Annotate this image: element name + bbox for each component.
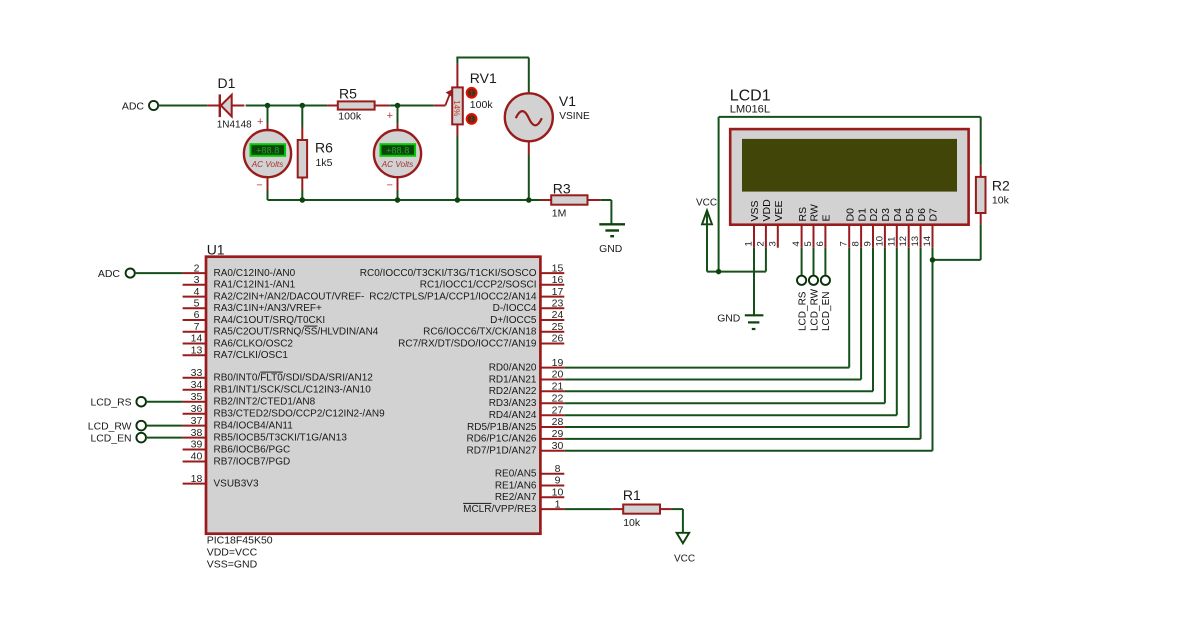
U1 pin 5 stub — [183, 298, 322, 315]
svg-text:8: 8 — [555, 463, 561, 475]
U1 pin 26 stub (right) — [398, 333, 564, 350]
svg-text:LCD_RS: LCD_RS — [91, 398, 132, 409]
svg-text:GND: GND — [599, 244, 622, 255]
svg-text:R2: R2 — [992, 178, 1010, 194]
svg-text:6: 6 — [815, 241, 826, 246]
U1 pin 39 stub — [183, 439, 291, 456]
svg-text:21: 21 — [552, 381, 564, 393]
svg-text:1M: 1M — [552, 208, 567, 220]
svg-text:VSINE: VSINE — [559, 111, 590, 122]
junction node rail RV1 — [455, 197, 461, 203]
svg-text:VEE: VEE — [773, 200, 785, 221]
U1 pin 8 stub (right) — [495, 463, 564, 480]
junction node VCC/frame — [716, 269, 722, 275]
U1 pin 37 stub — [183, 415, 294, 432]
svg-text:AC Volts: AC Volts — [251, 160, 284, 169]
wire V1 bottom to rail — [528, 155, 530, 200]
svg-text:RA6/CLKO/OSC2: RA6/CLKO/OSC2 — [214, 338, 294, 349]
U1 pin 10 stub (right) — [495, 487, 564, 504]
svg-text:10k: 10k — [623, 517, 641, 529]
svg-text:V1: V1 — [559, 93, 576, 109]
svg-text:D4: D4 — [892, 208, 904, 222]
U1 pin 2 stub — [183, 262, 296, 279]
svg-text:RB3/CTED2/SDO/CCP2/C12IN2-/AN9: RB3/CTED2/SDO/CCP2/C12IN2-/AN9 — [214, 409, 386, 420]
svg-text:VCC: VCC — [696, 197, 717, 208]
RV1 decrement button — [467, 114, 477, 124]
svg-text:RB5/IOCB5/T3CKI/T1G/AN13: RB5/IOCB5/T3CKI/T1G/AN13 — [214, 432, 348, 443]
svg-text:34: 34 — [191, 379, 203, 391]
U1 pin 24 stub (right) — [490, 309, 564, 326]
wire R1 to VCC — [672, 509, 683, 533]
wire R5 to RV1 wiper — [390, 105, 434, 107]
svg-text:4: 4 — [194, 286, 200, 298]
svg-text:D2: D2 — [868, 208, 880, 222]
resistor R2 — [976, 165, 1010, 224]
svg-text:RA3/C1IN+/AN3/VREF+: RA3/C1IN+/AN3/VREF+ — [214, 303, 323, 314]
U1 pin 36 stub — [183, 403, 386, 420]
U1 pin 22 stub (right) — [489, 392, 565, 409]
svg-text:LCD_RW: LCD_RW — [809, 288, 820, 331]
svg-text:R1: R1 — [623, 487, 641, 503]
junction node rail R6 — [300, 197, 306, 203]
svg-text:37: 37 — [191, 415, 203, 427]
wire RD0 to LCD D0 — [564, 248, 849, 368]
svg-text:29: 29 — [552, 428, 564, 440]
microcontroller U1 PIC18F45K50 body — [206, 257, 540, 534]
U1 pin 16 stub (right) — [420, 274, 565, 291]
U1 pin 14 stub — [183, 333, 294, 350]
svg-text:LCD1: LCD1 — [730, 88, 771, 105]
svg-text:40: 40 — [191, 451, 203, 463]
LCD1 display module body — [730, 129, 968, 225]
ground rail wire — [268, 199, 541, 200]
svg-text:38: 38 — [191, 427, 203, 439]
svg-text:VSS: VSS — [749, 200, 761, 221]
svg-text:8: 8 — [851, 241, 862, 246]
svg-text:LM016L: LM016L — [730, 103, 770, 115]
svg-text:D+/IOCC5: D+/IOCC5 — [490, 315, 537, 326]
svg-text:RD1/AN21: RD1/AN21 — [489, 374, 537, 385]
U1 pin 9 stub (right) — [495, 475, 564, 492]
svg-text:RA2/C2IN+/AN2/DACOUT/VREF-: RA2/C2IN+/AN2/DACOUT/VREF- — [214, 291, 365, 302]
svg-text:30: 30 — [552, 440, 564, 452]
svg-text:−: − — [386, 179, 392, 191]
svg-text:RB6/IOCB6/PGC: RB6/IOCB6/PGC — [214, 444, 291, 455]
svg-text:RD0/AN20: RD0/AN20 — [489, 362, 537, 373]
LCD1 pin 5 (RW) — [803, 204, 821, 248]
terminal LCD_RW (U1 side) — [88, 421, 146, 433]
svg-text:D1: D1 — [218, 75, 236, 91]
U1 pin 29 stub (right) — [466, 428, 564, 445]
ground symbol (R3) — [599, 224, 625, 255]
junction node VM2 top — [395, 103, 401, 109]
svg-text:19: 19 — [552, 357, 564, 369]
resistor R3 — [541, 180, 601, 219]
svg-text:RC6/IOCC6/TX/CK/AN18: RC6/IOCC6/TX/CK/AN18 — [423, 327, 537, 338]
power VCC symbol (R1) — [674, 533, 695, 565]
RV1 increment button — [467, 88, 477, 98]
svg-text:RE1/AN6: RE1/AN6 — [495, 480, 537, 491]
LCD1 label — [730, 88, 771, 116]
wire ADC to U1 pin2 — [135, 272, 183, 274]
U1 pin 15 stub (right) — [360, 262, 565, 279]
svg-text:D7: D7 — [928, 208, 940, 222]
U1 pin 7 stub — [183, 321, 379, 338]
svg-text:RC2/CTPLS/P1A/CCP1/IOCC2/AN14: RC2/CTPLS/P1A/CCP1/IOCC2/AN14 — [369, 291, 537, 302]
wire VCC to VDD pin — [707, 248, 766, 272]
wire RD6 to LCD D6 — [564, 248, 920, 439]
svg-text:VCC: VCC — [674, 553, 695, 564]
U1 pin 33 stub — [183, 367, 374, 384]
svg-text:10: 10 — [874, 236, 885, 247]
wire RD3 to LCD D3 — [564, 248, 885, 404]
wire ADC to D1 — [158, 105, 207, 107]
svg-text:100k: 100k — [470, 99, 494, 111]
svg-text:RD3/AN23: RD3/AN23 — [489, 398, 537, 409]
ground symbol (LCD) — [717, 314, 763, 330]
svg-text:RB0/INT0/FLT0/SDI/SDA/SRI/AN12: RB0/INT0/FLT0/SDI/SDA/SRI/AN12 — [214, 373, 374, 384]
svg-text:RA5/C2OUT/SRNQ/SS/HLVDIN/AN4: RA5/C2OUT/SRNQ/SS/HLVDIN/AN4 — [214, 327, 379, 338]
junction node D7/R2 — [930, 257, 936, 263]
svg-text:2: 2 — [755, 241, 766, 246]
svg-text:12: 12 — [898, 236, 909, 247]
wire LCD RW to terminal — [813, 248, 815, 276]
svg-text:D5: D5 — [904, 208, 916, 222]
voltmeter VM1 leads — [267, 106, 269, 201]
U1 pin 34 stub — [183, 379, 372, 396]
svg-text:14: 14 — [191, 333, 203, 345]
U1 pin 25 stub (right) — [423, 321, 564, 338]
U1 pin 27 stub (right) — [489, 404, 565, 421]
svg-text:AC Volts: AC Volts — [381, 160, 414, 169]
wire VSS to ground — [753, 248, 755, 316]
svg-text:5: 5 — [803, 241, 814, 246]
svg-text:3: 3 — [767, 241, 778, 246]
resistor R6 — [298, 139, 333, 177]
U1 pin 18 stub — [183, 473, 259, 490]
svg-text:24: 24 — [552, 309, 564, 321]
svg-text:RV1: RV1 — [470, 70, 497, 86]
potentiometer RV1 — [434, 64, 497, 136]
svg-text:D3: D3 — [880, 208, 892, 222]
LCD1 pin 13 (D6) — [910, 208, 928, 248]
terminal LCD_RW (LCD side) — [809, 276, 820, 331]
svg-text:17: 17 — [552, 286, 564, 298]
resistor R5 — [327, 85, 390, 122]
svg-text:RW: RW — [809, 204, 821, 221]
svg-text:RD6/P1C/AN26: RD6/P1C/AN26 — [466, 434, 536, 445]
svg-text:RD7/P1D/AN27: RD7/P1D/AN27 — [466, 446, 536, 457]
U1 pin 13 stub — [183, 344, 289, 361]
terminal ADC (U1 side) — [98, 268, 135, 280]
svg-text:RC0/IOCC0/T3CKI/T3G/T1CKI/SOSC: RC0/IOCC0/T3CKI/T3G/T1CKI/SOSCO — [360, 268, 537, 279]
svg-text:RS: RS — [797, 207, 809, 222]
wire RD5 to LCD D5 — [564, 248, 908, 427]
wire LCD_EN to U1 — [146, 437, 183, 439]
svg-text:16: 16 — [552, 274, 564, 286]
wire VCC frame (left vertical + top + right down to R2) — [719, 117, 981, 272]
junction node rail V1 — [526, 197, 532, 203]
svg-text:35: 35 — [191, 391, 203, 403]
svg-text:22: 22 — [552, 392, 564, 404]
LCD1 pin 12 (D5) — [898, 208, 916, 248]
svg-text:23: 23 — [552, 298, 564, 310]
U1 part labels — [207, 535, 273, 571]
LCD1 pin 9 (D2) — [863, 208, 881, 248]
svg-text:15: 15 — [552, 262, 564, 274]
terminal ADC (top) — [122, 100, 158, 112]
svg-text:VSUB3V3: VSUB3V3 — [214, 478, 259, 489]
voltmeter VM1 (AC Volts) — [244, 116, 291, 191]
U1 pin 20 stub (right) — [489, 369, 565, 386]
svg-text:4: 4 — [791, 241, 802, 246]
svg-text:1: 1 — [744, 241, 755, 246]
svg-text:−: − — [256, 179, 262, 191]
svg-text:RD5/P1B/AN25: RD5/P1B/AN25 — [467, 422, 537, 433]
resistor R6 leads — [301, 106, 303, 201]
svg-text:RA4/C1OUT/SRQ/T0CKI: RA4/C1OUT/SRQ/T0CKI — [214, 315, 326, 326]
U1 pin 40 stub — [183, 451, 291, 468]
LCD1 pin 8 (D1) — [851, 208, 869, 248]
svg-text:20: 20 — [552, 369, 564, 381]
LCD1 pin 6 (E) — [815, 214, 833, 247]
svg-text:R3: R3 — [553, 180, 571, 196]
wire R2 bottom to D7 node — [933, 224, 981, 260]
svg-text:VDD=VCC: VDD=VCC — [207, 547, 258, 559]
svg-text:D-/IOCC4: D-/IOCC4 — [493, 303, 537, 314]
LCD1 pin 3 (VEE) — [767, 200, 785, 247]
LCD1 pin 10 (D3) — [874, 208, 892, 248]
svg-text:+: + — [387, 110, 393, 122]
junction node VM1 top — [265, 103, 271, 109]
U1 pin 1 stub (right) — [463, 498, 564, 515]
U1 pin 28 stub (right) — [467, 416, 564, 433]
svg-text:1N4148: 1N4148 — [217, 119, 252, 130]
svg-text:ADC: ADC — [98, 268, 121, 280]
U1 pin 38 stub — [183, 427, 348, 444]
svg-text:7: 7 — [839, 241, 850, 246]
svg-text:RA1/C12IN1-/AN1: RA1/C12IN1-/AN1 — [214, 280, 296, 291]
svg-text:+88.8: +88.8 — [256, 146, 279, 156]
svg-text:RB1/INT1/SCK/SCL/C12IN3-/AN10: RB1/INT1/SCK/SCL/C12IN3-/AN10 — [214, 385, 372, 396]
svg-text:RB2/INT2/CTED1/AN8: RB2/INT2/CTED1/AN8 — [214, 397, 316, 408]
svg-text:LCD_RW: LCD_RW — [88, 421, 132, 432]
svg-text:5: 5 — [194, 298, 200, 310]
microcontroller U1 label — [207, 242, 225, 258]
wire MCLR to R1 — [564, 508, 611, 510]
U1 pin 3 stub — [183, 274, 296, 291]
svg-text:28: 28 — [552, 416, 564, 428]
svg-text:RE2/AN7: RE2/AN7 — [495, 492, 537, 503]
wire R3 to ground — [601, 200, 612, 224]
svg-text:RC7/RX/DT/SDO/IOCC7/AN19: RC7/RX/DT/SDO/IOCC7/AN19 — [398, 338, 537, 349]
wire RV1 bottom to rail — [456, 136, 458, 201]
svg-text:RC1/IOCC1/CCP2/SOSCI: RC1/IOCC1/CCP2/SOSCI — [420, 280, 537, 291]
svg-text:GND: GND — [717, 314, 740, 325]
svg-text:14: 14 — [922, 236, 933, 247]
svg-text:3: 3 — [194, 274, 200, 286]
svg-text:27: 27 — [552, 404, 564, 416]
svg-text:9: 9 — [555, 475, 561, 487]
svg-text:D0: D0 — [844, 208, 856, 222]
svg-text:25: 25 — [552, 321, 564, 333]
junction node R6 top — [300, 103, 306, 109]
svg-text:D1: D1 — [856, 208, 868, 222]
svg-text:+88.8: +88.8 — [386, 146, 409, 156]
sine source V1 — [505, 92, 590, 155]
svg-text:13: 13 — [910, 236, 921, 247]
svg-text:RE0/AN5: RE0/AN5 — [495, 469, 537, 480]
svg-text:9: 9 — [863, 241, 874, 246]
wire LCD_RS to U1 — [146, 401, 183, 403]
LCD1 pin 11 (D4) — [886, 208, 904, 248]
LCD1 pin 2 (VDD) — [755, 199, 773, 248]
svg-text:10k: 10k — [992, 194, 1010, 206]
wire RD7 to LCD D7 — [564, 248, 932, 451]
power VCC symbol (LCD) — [696, 197, 717, 271]
U1 pin 4 stub — [183, 286, 365, 303]
resistor R1 — [612, 487, 672, 529]
LCD1 pin 14 (D7) — [922, 208, 940, 248]
svg-text:RA0/C12IN0-/AN0: RA0/C12IN0-/AN0 — [214, 268, 296, 279]
wire RD2 to LCD D2 — [564, 248, 873, 392]
svg-text:R6: R6 — [315, 139, 333, 155]
svg-text:100k: 100k — [338, 111, 362, 123]
svg-text:MCLR/VPP/RE3: MCLR/VPP/RE3 — [463, 504, 537, 515]
LCD1 pin 4 (RS) — [791, 207, 809, 248]
U1 pin 23 stub (right) — [493, 298, 565, 315]
wire LCD RS to terminal — [801, 248, 803, 276]
voltmeter VM2 leads — [397, 106, 399, 201]
svg-text:14%: 14% — [452, 100, 461, 116]
wire D1 to R5 (nodes) — [246, 105, 328, 107]
U1 pin 6 stub — [183, 309, 326, 326]
svg-text:26: 26 — [552, 333, 564, 345]
svg-text:RA7/CLKI/OSC1: RA7/CLKI/OSC1 — [214, 350, 289, 361]
svg-text:LCD_EN: LCD_EN — [91, 433, 132, 444]
svg-text:7: 7 — [194, 321, 200, 333]
svg-text:2: 2 — [194, 262, 200, 274]
LCD1 pin 7 (D0) — [839, 208, 857, 248]
wire RV1 top loop to V1 — [456, 58, 528, 93]
svg-text:6: 6 — [194, 309, 200, 321]
svg-text:RD2/AN22: RD2/AN22 — [489, 386, 537, 397]
U1 pin 30 stub (right) — [466, 440, 564, 457]
svg-text:PIC18F45K50: PIC18F45K50 — [207, 535, 273, 547]
svg-text:RB7/IOCB7/PGD: RB7/IOCB7/PGD — [214, 456, 291, 467]
svg-text:33: 33 — [191, 367, 203, 379]
svg-text:13: 13 — [191, 344, 203, 356]
junction node rail VM2 — [395, 197, 401, 203]
LCD1 pin 1 (VSS) — [744, 200, 762, 247]
wire LCD_RW to U1 — [146, 425, 183, 427]
svg-text:18: 18 — [191, 473, 203, 485]
svg-text:1: 1 — [555, 498, 561, 510]
svg-text:LCD_EN: LCD_EN — [821, 292, 832, 331]
U1 pin 19 stub (right) — [489, 357, 565, 374]
terminal LCD_RS (U1 side) — [91, 397, 147, 409]
terminal LCD_EN (LCD side) — [821, 276, 832, 331]
voltmeter VM2 (AC Volts) — [374, 110, 421, 192]
svg-text:VSS=GND: VSS=GND — [207, 558, 258, 570]
svg-text:1k5: 1k5 — [316, 157, 333, 169]
terminal LCD_EN (U1 side) — [91, 433, 147, 445]
svg-text:D6: D6 — [916, 208, 928, 222]
diode D1 — [207, 75, 252, 131]
U1 pin 35 stub — [183, 391, 316, 408]
svg-text:E: E — [821, 214, 833, 221]
svg-text:ADC: ADC — [122, 100, 145, 112]
terminal LCD_RS (LCD side) — [797, 276, 808, 331]
svg-text:LCD_RS: LCD_RS — [797, 291, 808, 331]
svg-text:R5: R5 — [339, 85, 357, 101]
wire RD1 to LCD D1 — [564, 248, 861, 380]
U1 pin 17 stub (right) — [369, 286, 564, 303]
svg-text:VDD: VDD — [761, 199, 773, 222]
U1 pin 21 stub (right) — [489, 381, 565, 398]
svg-text:+: + — [257, 116, 263, 128]
svg-text:36: 36 — [191, 403, 203, 415]
svg-text:11: 11 — [886, 237, 897, 247]
wire LCD EN to terminal — [824, 248, 826, 276]
svg-text:RD4/AN24: RD4/AN24 — [489, 410, 537, 421]
wire RD4 to LCD D4 — [564, 248, 897, 416]
svg-text:RB4/IOCB4/AN11: RB4/IOCB4/AN11 — [214, 420, 294, 431]
svg-text:10: 10 — [552, 487, 564, 499]
svg-text:39: 39 — [191, 439, 203, 451]
svg-text:U1: U1 — [207, 242, 225, 258]
